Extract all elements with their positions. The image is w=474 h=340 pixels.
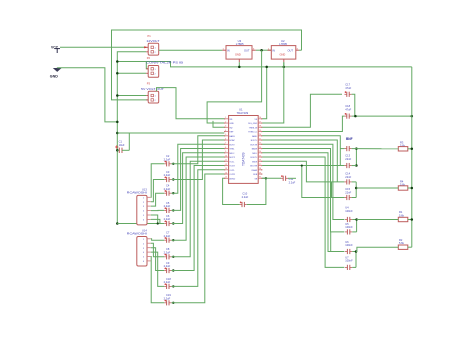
capacitor U7 100nF — [345, 255, 353, 270]
svg-text:OUT: OUT — [288, 49, 294, 53]
svg-text:SUB: SUB — [253, 174, 258, 176]
svg-text:5.6k: 5.6k — [399, 213, 405, 217]
svg-text:BCAP: BCAP — [229, 139, 235, 142]
capacitor C4 2.2uF — [164, 184, 175, 196]
svg-text:20: 20 — [259, 134, 261, 136]
svg-text:BOUTL: BOUTL — [251, 157, 259, 159]
svg-text:RCAWOSHI: RCAWOSHI — [127, 190, 147, 194]
wire IC pin3 left riser — [213, 121, 224, 127]
svg-text:3: 3 — [225, 126, 226, 128]
wire U2 OUT to 5V rail — [299, 49, 302, 51]
svg-text:5.6k: 5.6k — [399, 241, 405, 245]
svg-text:22: 22 — [259, 143, 261, 145]
svg-text:BOUTR: BOUTR — [250, 166, 258, 168]
wire U2 GND to rail — [283, 62, 285, 67]
svg-text:BCKTL: BCKTL — [251, 140, 258, 142]
wire bus to P2 pin2 — [117, 72, 146, 74]
svg-text:MIDR: MIDR — [252, 161, 258, 163]
connector P2 CONN-TAL2P PS IN — [146, 56, 183, 77]
wire U4 to R1 to bus — [357, 219, 399, 221]
capacitor C1 10uF — [115, 139, 129, 153]
wire C7 to IC pin10 left — [171, 157, 224, 240]
svg-text:C11: C11 — [289, 177, 294, 181]
capacitor C15 22nF — [344, 187, 351, 200]
capacitor C5 2.2uF — [164, 201, 175, 213]
svg-text:TDA7439: TDA7439 — [242, 152, 246, 166]
svg-text:9: 9 — [225, 151, 226, 153]
svg-text:C18: C18 — [345, 104, 350, 108]
wire U3 OUT to U2 IN — [256, 49, 271, 51]
svg-text:IN: IN — [227, 49, 230, 53]
svg-text:24: 24 — [259, 151, 261, 153]
capacitor C3 2.2uF — [164, 170, 175, 182]
svg-text:2.2uF: 2.2uF — [164, 296, 171, 300]
svg-text:MCP2: MCP2 — [229, 157, 235, 159]
wire U3 GND to rail — [238, 62, 240, 67]
wire C13 to R3 to bus — [356, 148, 398, 150]
svg-text:VOLL: VOLL — [229, 161, 235, 163]
wire bus to GND rail — [117, 62, 412, 67]
wire IC pin2 right to GND rail — [262, 62, 284, 123]
capacitor C6 2.2uF — [164, 214, 175, 226]
wire IC pin9 right to U6 row — [262, 153, 344, 252]
wire C13 row1 left stub — [340, 148, 344, 150]
wire C9 to IC pin12 left — [171, 166, 224, 271]
op-amp U1 TDA7439 — [229, 108, 259, 184]
svg-text:5: 5 — [225, 134, 226, 136]
wire U13 pin2 to C3 — [151, 180, 164, 202]
node VCC — [51, 45, 60, 53]
capacitor U6 100nF — [345, 240, 353, 254]
wire C14 C15 right join — [352, 181, 357, 183]
wire GND bus vertical — [117, 52, 146, 224]
wire U14 pin1 to C7 — [151, 239, 164, 240]
svg-text:4: 4 — [225, 130, 226, 132]
svg-text:27: 27 — [259, 164, 261, 166]
wire IC pin7 right to U4 row — [262, 144, 344, 219]
svg-text:19: 19 — [259, 130, 261, 132]
svg-text:AGND: AGND — [229, 177, 235, 180]
wire U5 to U6 left join — [330, 232, 332, 252]
resistor R1 5.6k — [398, 210, 408, 222]
wire right GND bus — [411, 67, 413, 247]
svg-text:23: 23 — [259, 147, 261, 149]
connector P1 12VOLT — [144, 34, 159, 55]
IC U1 pin stubs left — [224, 117, 236, 180]
wire IC pin6 right to C14 row — [262, 140, 337, 182]
svg-text:1: 1 — [225, 117, 226, 119]
wire C3 to IC pin6 left — [171, 140, 224, 179]
svg-text:7: 7 — [225, 143, 226, 145]
svg-text:6: 6 — [225, 138, 226, 140]
wire U14 pin5 to C19 — [151, 257, 164, 303]
wire U13 pin1 to C2 — [151, 164, 164, 198]
svg-text:2.2uF: 2.2uF — [164, 250, 171, 254]
wire C14 join to R4 to bus — [356, 187, 398, 189]
svg-text:GND: GND — [280, 53, 286, 57]
wire U14 pin2 to C8 — [151, 243, 164, 257]
voltage regulator U2 L7805 — [268, 39, 300, 62]
svg-text:30: 30 — [259, 177, 261, 179]
wire P3 top to IC pin1 left — [157, 88, 225, 119]
resistor R2 5.6k — [398, 238, 408, 250]
wire C1 riser to pin4 net — [128, 133, 130, 150]
svg-text:16: 16 — [259, 117, 261, 119]
svg-text:IN: IN — [272, 49, 275, 53]
svg-text:22nF: 22nF — [345, 175, 351, 179]
svg-text:C1: C1 — [119, 139, 123, 143]
wire U6 U7 right join — [352, 251, 356, 253]
IC U1 pin stubs right — [248, 117, 262, 180]
svg-text:BCKTR: BCKTR — [250, 144, 257, 146]
wire IC pin11 right to C14 — [262, 161, 344, 182]
wire C6 row from bus — [117, 223, 164, 225]
wire C13 rows right join — [355, 149, 357, 166]
capacitor U4 100nF — [345, 206, 353, 223]
svg-text:C15: C15 — [345, 187, 350, 191]
svg-text:8: 8 — [225, 147, 226, 149]
wire bus to IC pin4 left — [117, 132, 224, 134]
wire P2 pin1 drop — [146, 62, 148, 69]
wire C14 to C15 left join — [331, 182, 333, 198]
wire C15 feed drop — [302, 166, 345, 198]
svg-text:BNF: BNF — [346, 137, 353, 141]
junction dots power bus — [116, 60, 119, 63]
wire IC pin3 right to C17 — [262, 94, 342, 127]
wire C10 to riser — [247, 178, 266, 204]
svg-text:REAR: REAR — [252, 169, 258, 172]
capacitor C2 2.2uF — [164, 154, 175, 166]
wire GND symbol to bus — [57, 68, 117, 122]
svg-text:10: 10 — [225, 155, 227, 157]
svg-text:14: 14 — [225, 172, 227, 174]
connector U13 RCAWOSHI — [127, 187, 151, 225]
svg-text:BASL: BASL — [252, 135, 258, 138]
capacitor C13 22nF — [344, 146, 351, 168]
wire VCC to P1 pin1 — [60, 46, 146, 48]
capacitor C17 47uF — [344, 82, 351, 97]
svg-text:TDA7439: TDA7439 — [237, 111, 249, 115]
svg-text:10uF: 10uF — [119, 143, 125, 147]
svg-text:2.2uF: 2.2uF — [164, 204, 171, 208]
svg-text:2.2uF: 2.2uF — [242, 195, 249, 199]
wire IC pin4 right to C18 left — [262, 116, 344, 131]
svg-text:12VOLT: 12VOLT — [146, 39, 159, 43]
capacitor C18 47uF — [344, 104, 351, 119]
wire IC pin1 right to GND rail — [262, 67, 267, 119]
svg-text:C14: C14 — [345, 172, 350, 176]
svg-text:29: 29 — [259, 172, 261, 174]
svg-text:2.2uF: 2.2uF — [164, 173, 171, 177]
svg-text:C17: C17 — [345, 82, 350, 86]
wire C18 to IC pin13 left — [171, 170, 224, 287]
svg-text:TRBL: TRBL — [229, 149, 235, 151]
wire U4 U5 right join — [352, 219, 356, 221]
svg-text:TREB_IN: TREB_IN — [249, 127, 258, 129]
wire IC pin12 right to C13 row2 — [262, 165, 344, 167]
svg-text:BASR: BASR — [252, 148, 258, 151]
svg-text:TREB_CL: TREB_CL — [248, 132, 258, 134]
capacitor C8 2.2uF — [164, 247, 175, 259]
wire IC pin5 right to C13 row — [262, 136, 340, 166]
wire U14 pin4 to C18 — [151, 252, 164, 286]
svg-text:28: 28 — [259, 168, 261, 170]
svg-text:17: 17 — [259, 121, 261, 123]
wire U14 pin3 to C9 — [151, 248, 164, 271]
svg-text:2.2uF: 2.2uF — [164, 187, 171, 191]
resistor R3 — [398, 141, 408, 152]
svg-text:P2: P2 — [147, 56, 151, 60]
wire bus to P3 pin1 — [117, 95, 146, 97]
wire IC pin15 left to C10 — [223, 178, 240, 204]
capacitor C10 2.2uF — [240, 192, 249, 208]
svg-text:GND: GND — [229, 123, 234, 125]
wire C4 to IC pin7 left — [171, 144, 224, 193]
wire 5V top rail — [112, 30, 302, 100]
svg-text:P3: P3 — [147, 81, 151, 85]
svg-text:25: 25 — [259, 155, 261, 157]
capacitor C14 22nF — [344, 172, 351, 185]
wire U13 pin3 to C4 — [151, 193, 164, 206]
svg-text:P1: P1 — [148, 34, 152, 38]
wire C2 to IC pin5 left — [171, 136, 224, 164]
svg-text:12: 12 — [225, 164, 227, 166]
wire C18 to right bus — [352, 115, 412, 117]
svg-text:CONN-TAL2P PS IB: CONN-TAL2P PS IB — [146, 60, 183, 64]
capacitor C9 2.2uF — [164, 261, 175, 273]
capacitor C7 2.2uF — [164, 231, 175, 243]
svg-text:DIG_GND: DIG_GND — [248, 123, 258, 125]
wire IC pin15 right to C11 — [262, 177, 281, 179]
svg-text:100nF: 100nF — [345, 225, 353, 229]
svg-text:11: 11 — [225, 160, 227, 162]
wire C11 right stub — [288, 177, 296, 179]
svg-text:GND: GND — [235, 53, 241, 57]
svg-text:100nF: 100nF — [345, 259, 353, 263]
capacitor C18 2.2uF — [164, 277, 175, 289]
svg-text:C13: C13 — [345, 153, 350, 157]
svg-text:2.2uF: 2.2uF — [289, 180, 296, 184]
capacitor U5 100nF — [345, 222, 353, 235]
wire regulator node to IC pin2 left — [207, 50, 262, 123]
svg-text:GND: GND — [50, 75, 58, 79]
svg-text:15: 15 — [225, 177, 227, 179]
svg-text:2.2uF: 2.2uF — [164, 264, 171, 268]
svg-text:VOLR: VOLR — [229, 166, 235, 168]
svg-text:MIDC: MIDC — [229, 153, 235, 155]
svg-text:47uF: 47uF — [345, 108, 351, 112]
wire C19 to IC pin14 left — [171, 174, 224, 303]
svg-text:BCP2: BCP2 — [229, 144, 235, 146]
svg-text:2: 2 — [225, 121, 226, 123]
svg-text:2.2uF: 2.2uF — [164, 217, 171, 221]
wire IC pin8 right to U5 row — [262, 149, 344, 232]
wire U13 pin4 to C5 — [151, 209, 164, 211]
voltage regulator U3 L7805 — [222, 39, 255, 62]
capacitor C11 2.2uF — [281, 175, 296, 184]
svg-text:2.2uF: 2.2uF — [164, 280, 171, 284]
wire C5 to IC pin8 left — [171, 149, 224, 211]
svg-text:22nF: 22nF — [345, 157, 351, 161]
wire U13 pin6 to C6 row — [151, 219, 160, 223]
svg-text:100nF: 100nF — [345, 243, 353, 247]
connector P3 5V VOLT OUT — [141, 81, 164, 103]
svg-text:RCAWOSHI: RCAWOSHI — [127, 232, 147, 236]
wire C6 to IC pin9 left — [171, 153, 224, 224]
connector U14 RCAWOSHI — [127, 229, 151, 267]
svg-text:OUT: OUT — [244, 49, 250, 53]
wire U13 pin5 to C6 row — [151, 215, 158, 224]
svg-text:OUTR: OUTR — [229, 174, 235, 176]
svg-text:13: 13 — [225, 168, 227, 170]
wire P1 to U3 IN — [159, 49, 223, 51]
resistor R4 — [398, 180, 408, 191]
wire IC pin10 right to U7 row — [262, 157, 344, 267]
wire C8 to IC pin11 left — [171, 161, 224, 256]
svg-text:18: 18 — [259, 126, 261, 128]
wire C17 to C18 right — [352, 94, 356, 116]
capacitor C19 2.2uF — [164, 293, 175, 305]
svg-text:OUTL: OUTL — [229, 170, 235, 172]
wire U6 to R2 to bus end — [356, 247, 398, 251]
svg-text:100nF: 100nF — [345, 209, 353, 213]
svg-text:2.2uF: 2.2uF — [164, 157, 171, 161]
svg-text:22nF: 22nF — [345, 191, 351, 195]
svg-text:47uF: 47uF — [345, 86, 351, 90]
svg-text:21: 21 — [259, 138, 261, 140]
svg-text:2.2uF: 2.2uF — [164, 234, 171, 238]
svg-text:26: 26 — [259, 160, 261, 162]
ground — [50, 68, 62, 79]
svg-text:BASS: BASS — [229, 135, 235, 138]
